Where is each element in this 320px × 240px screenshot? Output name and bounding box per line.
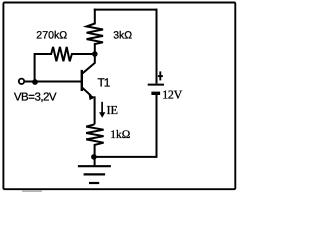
svg-text:T1: T1 (98, 75, 110, 89)
svg-text:3kΩ: 3kΩ (113, 30, 132, 42)
svg-text:IE: IE (107, 103, 119, 117)
svg-text:270kΩ: 270kΩ (36, 30, 67, 42)
svg-text:12V: 12V (162, 88, 182, 102)
svg-text:1kΩ: 1kΩ (110, 129, 130, 141)
svg-text:VB=3,2V: VB=3,2V (14, 91, 57, 103)
